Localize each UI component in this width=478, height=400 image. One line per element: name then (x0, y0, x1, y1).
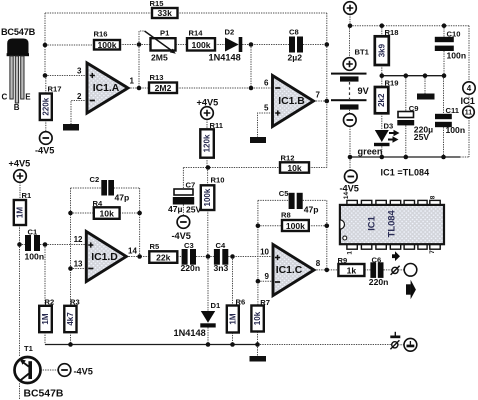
svg-text:C6: C6 (372, 256, 382, 265)
wire left input column x45 (45, 13, 94, 76)
svg-text:220k: 220k (41, 97, 50, 115)
svg-text:100k: 100k (191, 40, 210, 50)
junction node x251 y88 (249, 86, 254, 91)
wire junction column x251 (250, 45, 252, 89)
svg-text:C3: C3 (184, 241, 194, 250)
svg-text:C10: C10 (447, 30, 461, 39)
wire C2 row y188 (71, 187, 140, 189)
junction node x45 y244.5 (43, 242, 48, 247)
svg-text:1: 1 (347, 251, 354, 255)
svg-text:6: 6 (264, 79, 269, 88)
resistor R12 (280, 154, 309, 173)
svg-text:1N4148: 1N4148 (209, 53, 241, 63)
wire bottom common rail y344.5 (solid part) (45, 344, 258, 346)
svg-text:1M: 1M (228, 313, 237, 324)
resistor R17 (40, 85, 62, 121)
resistor R4 (93, 199, 120, 219)
svg-text:8: 8 (316, 259, 321, 268)
svg-text:5: 5 (264, 104, 269, 113)
svg-text:R3: R3 (70, 298, 80, 307)
wire C9 column x405.8 (405, 76, 407, 157)
svg-text:R10: R10 (211, 175, 225, 184)
svg-text:R16: R16 (94, 30, 108, 39)
capacitor C1 (25, 228, 45, 262)
svg-text:47µ: 47µ (168, 204, 183, 214)
ground (IC1.B pin 5) (250, 137, 266, 143)
junction node x444 y25.7 (442, 23, 447, 28)
wire pin9 column x257.9 (258, 200, 274, 344)
wire right feedback column x326.8 (326, 13, 328, 168)
svg-text:100n: 100n (446, 125, 466, 135)
svg-text:C4: C4 (216, 241, 226, 250)
junction node x350 y25.7 (348, 23, 353, 28)
svg-text:220n: 220n (369, 277, 389, 287)
wire P1 to R14 (176, 44, 188, 46)
capacitor C6 (369, 256, 389, 287)
svg-text:R18: R18 (385, 28, 399, 37)
diode D1 1N4148 (174, 301, 221, 338)
svg-text:1M: 1M (41, 313, 50, 324)
diode D2 1N4148 (209, 28, 243, 63)
svg-text:4: 4 (467, 84, 472, 93)
wire IC1.D output row y256.5 (126, 256, 273, 258)
junction node x381.8 y157 (380, 155, 385, 160)
wire battery column top (349, 14, 352, 58)
electrolytic capacitor C7 (168, 181, 202, 215)
output signal arrow (large) (406, 280, 416, 300)
wire R10 column (207, 168, 209, 257)
junction node x208 y167.5 (206, 165, 211, 170)
wire feedback column x139.6 (139, 188, 141, 257)
svg-text:13: 13 (74, 260, 83, 269)
battery BT1 9V (331, 48, 370, 127)
svg-text:IC1.D: IC1.D (91, 252, 118, 263)
svg-text:10: 10 (260, 248, 269, 257)
svg-text:R15: R15 (150, 0, 165, 8)
svg-text:C: C (2, 93, 8, 102)
svg-text:R14: R14 (189, 29, 204, 38)
svg-text:22k: 22k (156, 252, 171, 262)
LED D3 green (358, 122, 400, 157)
resistor R1 (14, 191, 32, 225)
junction node x208 y256.5 (206, 254, 211, 259)
svg-text:R11: R11 (210, 121, 224, 130)
svg-text:3: 3 (77, 67, 82, 76)
junction node x208 y344.5 (206, 342, 211, 347)
svg-text:47p: 47p (304, 205, 319, 215)
capacitor C10 (435, 30, 466, 61)
svg-text:C7: C7 (186, 181, 196, 190)
junction node x257.9 y225.8 (256, 224, 261, 229)
wire left supply column x19.5 (19, 182, 22, 400)
junction node x232.5 y256.5 (230, 254, 235, 259)
svg-text:D2: D2 (225, 28, 235, 37)
ground symbol (above ground jack) (390, 332, 400, 338)
svg-text:TL084: TL084 (385, 209, 396, 237)
supply -4V5 terminal (below battery) (340, 170, 359, 193)
capacitor C2 (90, 175, 130, 203)
svg-text:100k: 100k (97, 40, 116, 50)
svg-text:R17: R17 (48, 85, 62, 94)
svg-text:14: 14 (128, 247, 137, 256)
ground (bottom rail) (250, 356, 267, 362)
resistor R8 (281, 211, 309, 232)
svg-text:8: 8 (429, 195, 436, 199)
junction node x444 y75.7 (442, 73, 447, 78)
wire R11 column (206, 119, 208, 167)
svg-text:IC1: IC1 (365, 216, 376, 231)
svg-text:IC1 =TL084: IC1 =TL084 (381, 168, 430, 178)
wire D2 to C8 (242, 44, 289, 46)
junction node x326.8 y269.9 (325, 268, 330, 273)
svg-text:2: 2 (77, 92, 82, 101)
resistor R15 (150, 0, 178, 18)
svg-text:R8: R8 (281, 211, 291, 220)
svg-text:-4V5: -4V5 (172, 231, 191, 241)
resistor R10 (201, 175, 225, 210)
svg-text:9V: 9V (358, 86, 370, 96)
svg-text:R9: R9 (338, 256, 348, 265)
potentiometer P1 (145, 29, 176, 63)
wire C7 branch (182, 168, 184, 216)
junction node x232.5 y344.5 (230, 342, 235, 347)
svg-text:220n: 220n (181, 263, 201, 273)
svg-text:2M5: 2M5 (151, 52, 168, 62)
wire R16 to P1 row y44.5 (120, 44, 151, 46)
junction node x443.5 y157 (441, 155, 446, 160)
wire IC1.A output row y88 (128, 87, 149, 89)
junction node x70.5 y213 (68, 211, 73, 216)
supply +4V5 (left, above R1) (9, 159, 31, 183)
op-amp IC1.A (77, 63, 134, 113)
wire pin2 to ground (71, 101, 87, 125)
svg-text:100n: 100n (25, 252, 45, 262)
wire IC1.C output row y269.9 (314, 269, 404, 271)
svg-text:1: 1 (130, 77, 135, 86)
wire top feedback rail y13 (45, 12, 327, 14)
op-amp IC1.D (74, 232, 138, 282)
wire IC1.B output (314, 100, 327, 102)
junction node x381.8 y25.7 (380, 23, 385, 28)
svg-text:R1: R1 (22, 191, 32, 200)
svg-text:2M2: 2M2 (155, 83, 172, 93)
svg-text:R19: R19 (385, 78, 399, 87)
wire D1 column (207, 257, 209, 345)
node IC1 pin 11 (supply pin circle) (463, 106, 475, 118)
junction node x70.5 y268.5 (68, 266, 73, 271)
wire T1 base to -4V5 (40, 369, 58, 371)
junction node x405.8 y157 (404, 155, 409, 160)
capacitor C8 (288, 28, 304, 63)
wire R12 row y167.5 (183, 167, 326, 169)
svg-text:33k: 33k (158, 8, 173, 18)
svg-text:10k: 10k (287, 163, 302, 173)
supply +4V5 terminal (top of battery) (344, 2, 357, 15)
resistor R16 (94, 30, 121, 50)
svg-text:BC547B: BC547B (1, 27, 36, 37)
wire battery to minus rail (349, 110, 352, 171)
resistor R14 (187, 29, 215, 51)
junction node x139.6 y256.5 (137, 254, 142, 259)
wire R18 column x381.8 (381, 26, 383, 76)
wire pin5 to ground (258, 113, 273, 137)
wire R6 column x232.5 (232, 257, 234, 345)
svg-text:-4V5: -4V5 (35, 146, 54, 156)
svg-text:4k7: 4k7 (66, 312, 75, 326)
wire R14 to D2 (215, 44, 225, 46)
svg-text:C8: C8 (289, 28, 299, 37)
wire R2 column x45 (44, 245, 46, 345)
svg-text:R6: R6 (236, 298, 246, 307)
wire R19 D3 column (381, 76, 383, 157)
wire R8 row y225.8 (258, 225, 327, 227)
wire R17 stubs (45, 76, 47, 132)
svg-text:BC547B: BC547B (24, 389, 64, 400)
junction node x139 y88 (137, 86, 142, 91)
supply -4V5 (T1 base) (58, 364, 93, 377)
output signal arrow (small) (392, 251, 400, 261)
svg-text:R5: R5 (150, 242, 160, 251)
wire bottom common rail y344.5 (to ground jack) (258, 344, 392, 346)
wire IC1.A output to P1 column x139 (138, 45, 140, 89)
electrolytic capacitor C9 (397, 104, 433, 142)
svg-text:C1: C1 (28, 228, 38, 237)
svg-text:7: 7 (316, 91, 321, 100)
svg-text:IC1: IC1 (461, 96, 475, 106)
svg-text:25V: 25V (186, 204, 202, 214)
svg-text:3n3: 3n3 (214, 263, 229, 273)
svg-text:14: 14 (343, 192, 350, 200)
wire R13 to pin6 (177, 87, 273, 89)
svg-text:IC1.C: IC1.C (276, 265, 303, 276)
ground terminal circle (404, 338, 417, 351)
svg-text:10k: 10k (253, 311, 262, 325)
svg-text:C11: C11 (446, 106, 460, 115)
capacitor C5 (279, 189, 319, 215)
svg-text:R13: R13 (150, 73, 164, 82)
svg-text:-4V5: -4V5 (74, 367, 93, 377)
wire mid ground stub x425 (424, 76, 426, 94)
svg-text:B: B (14, 103, 20, 112)
wire P1 wiper bend (139, 31, 145, 45)
svg-text:green: green (358, 147, 383, 157)
svg-text:IC1.B: IC1.B (278, 96, 305, 107)
svg-text:C5: C5 (279, 189, 289, 198)
junction node x45 y45 (43, 43, 48, 48)
capacitor C3 (181, 241, 201, 273)
svg-text:12: 12 (74, 235, 83, 244)
svg-text:120k: 120k (203, 134, 212, 152)
wire negative rail y157 (350, 156, 460, 158)
resistor R19 (375, 78, 399, 113)
svg-text:100k: 100k (286, 221, 305, 231)
junction node x70.5 y344.5 (68, 342, 73, 347)
svg-text:P1: P1 (160, 29, 170, 38)
resistor R11 (200, 121, 223, 158)
svg-text:10k: 10k (100, 208, 115, 218)
svg-text:11: 11 (465, 110, 473, 117)
supply +4V5 (above R11) (197, 98, 219, 120)
svg-text:T1: T1 (24, 344, 34, 353)
junction node x326.8 y225.8 (325, 224, 330, 229)
resistor R2 (39, 298, 54, 333)
transistor package BC547B (top left pinout drawing) (1, 27, 36, 112)
svg-text:C9: C9 (409, 104, 419, 113)
wire pin12 row y244.5 (45, 244, 86, 246)
svg-text:1N4148: 1N4148 (174, 328, 206, 338)
node IC1 pin 4 (supply pin circle) (463, 82, 475, 94)
svg-text:1k: 1k (347, 266, 357, 276)
junction node x139 y44.5 (137, 42, 142, 47)
svg-text:R4: R4 (93, 199, 103, 208)
wire pin13 column x70.5 (71, 188, 87, 345)
ground jack connector (circle with slash) (390, 340, 404, 349)
op-amp IC1.C (260, 245, 321, 296)
ground (IC1.A pin 2) (63, 124, 79, 131)
junction node x251 y44.5 (249, 42, 254, 47)
resistor R3 (64, 298, 79, 333)
output jack connector (circle with slash) (391, 266, 400, 275)
svg-text:9: 9 (265, 272, 270, 281)
capacitor C11 (435, 106, 465, 135)
svg-text:R7: R7 (260, 298, 270, 307)
wire IC1.C feedback column x326.8 (326, 200, 328, 270)
svg-text:+4V5: +4V5 (9, 159, 31, 169)
junction node x257.9 y281.2 (256, 279, 261, 284)
svg-text:100k: 100k (203, 188, 212, 206)
svg-text:3k9: 3k9 (377, 43, 386, 57)
resistor R5 (149, 242, 177, 263)
wire bottom ground stub (257, 345, 259, 357)
ground (mid rail) (417, 94, 435, 100)
resistor R7 (251, 298, 270, 332)
junction node x381.8 y75.7 (380, 73, 385, 78)
junction node x350 y157 (348, 155, 353, 160)
junction node x425 y75.7 (423, 73, 428, 78)
wire C8 to vertical (303, 44, 327, 46)
junction node x405.8 y75.7 (404, 73, 409, 78)
svg-text:IC1.A: IC1.A (93, 83, 120, 94)
supply -4V5 (below R17) (35, 132, 54, 156)
wire R4 row y213 (71, 212, 140, 214)
svg-text:R2: R2 (45, 298, 55, 307)
svg-text:E: E (25, 93, 31, 102)
resistor R18 (375, 28, 399, 65)
svg-text:25V: 25V (414, 132, 430, 142)
svg-text:100n: 100n (447, 51, 467, 61)
transistor T1 (15, 344, 64, 400)
wire C5 row y200.4 (258, 199, 327, 201)
junction node x326.8 y101 (325, 99, 330, 104)
svg-text:+4V5: +4V5 (197, 98, 219, 108)
resistor R13 (149, 73, 177, 93)
svg-text:C2: C2 (90, 175, 100, 184)
svg-text:2k2: 2k2 (377, 93, 386, 107)
svg-text:2µ2: 2µ2 (288, 53, 303, 63)
svg-text:7: 7 (429, 250, 436, 254)
svg-text:BT1: BT1 (355, 48, 370, 57)
wire mid rail y75.7 (382, 75, 444, 77)
junction node x257.5 y344.5 (255, 342, 260, 347)
IC package IC1 TL084 (DIP-14 drawing) (340, 192, 444, 255)
junction node x326.8 y44.5 (325, 42, 330, 47)
resistor R9 (338, 256, 365, 276)
svg-text:47p: 47p (115, 193, 130, 203)
resistor R6 (227, 298, 245, 333)
svg-text:1M: 1M (15, 207, 24, 218)
op-amp IC1.B (264, 76, 320, 127)
supply -4V5 (below C7) (172, 216, 191, 241)
svg-text:D3: D3 (384, 122, 394, 131)
wire C10 C11 column x444 (443, 26, 446, 157)
wire +4V5 rail y25.7 (350, 25, 469, 27)
capacitor C4 (214, 241, 229, 273)
junction node x45 y75.5 (43, 73, 48, 78)
junction node x139.6 y213 (137, 211, 142, 216)
wire C1 stubs (20, 244, 46, 246)
svg-text:R12: R12 (281, 154, 295, 163)
junction node x19.5 y244.5 (17, 242, 22, 247)
svg-text:D1: D1 (211, 301, 221, 310)
output terminal circle (404, 264, 417, 277)
wire right edge pins 4 11 column x469 (468, 26, 470, 157)
